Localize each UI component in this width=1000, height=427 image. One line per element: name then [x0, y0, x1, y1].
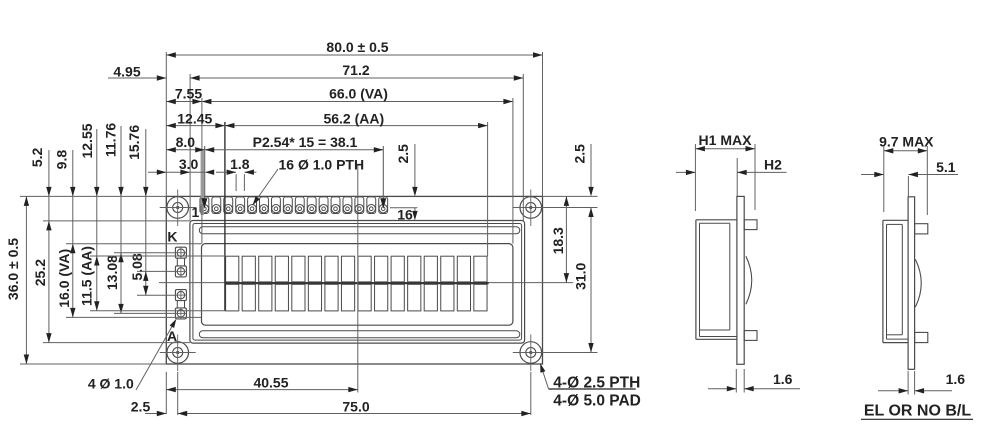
extension hole crosshair right bottom	[547, 352, 598, 354]
dimension 2.5 left vertical	[414, 144, 416, 191]
display window (VA)	[202, 244, 513, 326]
svg-text:A: A	[167, 328, 177, 344]
dimension 40.55	[166, 389, 357, 391]
svg-text:1.6: 1.6	[946, 371, 966, 387]
side view 1 bezel profile	[695, 220, 697, 339]
bezel bottom groove	[199, 331, 520, 338]
svg-text:P2.54* 15 = 38.1: P2.54* 15 = 38.1	[253, 134, 358, 150]
dimension 7.55	[166, 101, 202, 103]
dimension 18.3	[565, 196, 567, 282]
extension line AA left	[224, 122, 226, 311]
PCB outline (front view)	[166, 196, 542, 364]
extension line bezel right	[522, 74, 524, 221]
dimension 4.95	[108, 77, 166, 79]
svg-text:12.55: 12.55	[79, 123, 95, 158]
extension centerline right	[543, 282, 573, 284]
dimension P2.54* 15 = 38.1	[205, 149, 384, 151]
extension lines bottom	[165, 372, 167, 414]
svg-text:40.55: 40.55	[253, 375, 288, 391]
svg-text:18.3: 18.3	[550, 227, 566, 254]
dimension 12.55 and 11.5 (AA)	[96, 129, 98, 311]
svg-text:4 Ø 1.0: 4 Ø 1.0	[88, 376, 134, 392]
svg-text:2.5: 2.5	[131, 398, 151, 414]
extension line PCB right	[542, 52, 544, 196]
svg-text:H1 MAX: H1 MAX	[699, 132, 753, 148]
dimension 80.0 +-0.5	[166, 54, 542, 56]
svg-text:2.5: 2.5	[395, 144, 411, 164]
svg-text:5.1: 5.1	[936, 159, 956, 175]
svg-text:75.0: 75.0	[342, 398, 369, 414]
display centerline dark band	[225, 282, 489, 284]
dimension 2.5 right vertical	[590, 144, 592, 191]
extension line AA right	[487, 122, 489, 256]
svg-text:8.0: 8.0	[176, 134, 196, 150]
side view 1 bezel tab top	[744, 220, 757, 230]
dimension 5.1	[907, 176, 909, 197]
svg-text:36.0 ± 0.5: 36.0 ± 0.5	[5, 238, 21, 300]
svg-text:13.08: 13.08	[104, 255, 120, 290]
module vertical centerline	[357, 164, 359, 393]
dimension 8.0	[166, 149, 204, 151]
dimension H1 MAX	[694, 144, 696, 211]
svg-text:16.0 (VA): 16.0 (VA)	[56, 249, 72, 308]
bezel inner frame line	[193, 224, 522, 341]
dimension 1.6 side view 1	[735, 369, 737, 393]
dimension 12.45	[166, 125, 225, 127]
svg-text:1: 1	[192, 204, 200, 220]
svg-text:4-Ø 5.0 PAD: 4-Ø 5.0 PAD	[553, 393, 641, 410]
backlight pads K and A	[177, 257, 184, 268]
extension PCB top right	[543, 195, 598, 197]
dimension 36.0 +-0.5	[25, 196, 27, 364]
svg-text:EL OR NO B/L: EL OR NO B/L	[864, 403, 971, 420]
extension line pin1 center	[204, 146, 206, 200]
svg-text:H2: H2	[764, 156, 782, 172]
dimension 66.0 (VA)	[202, 101, 513, 103]
side view 1 bezel tab bottom	[744, 331, 757, 341]
svg-text:16 Ø 1.0 PTH: 16 Ø 1.0 PTH	[279, 157, 365, 173]
svg-text:66.0 (VA): 66.0 (VA)	[329, 86, 388, 102]
extension hole crosshair right top	[547, 207, 598, 209]
bezel outer frame	[190, 221, 525, 344]
mounting holes 4x	[167, 197, 189, 219]
side view 1 backlight bump	[746, 256, 752, 304]
side view 2 lens bump	[915, 259, 921, 307]
dimension 5.2 and 25.2	[48, 150, 50, 343]
dimension 31.0	[590, 208, 592, 353]
side view 2 bezel profile	[882, 220, 884, 342]
side view 1 PCB	[737, 196, 744, 364]
svg-text:1.8: 1.8	[230, 156, 250, 172]
svg-text:3.0: 3.0	[179, 156, 199, 172]
svg-text:K: K	[167, 228, 177, 244]
display horizontal centerline	[159, 282, 543, 284]
extension line VA right	[512, 98, 514, 244]
svg-text:31.0: 31.0	[573, 262, 589, 289]
svg-text:56.2 (AA): 56.2 (AA)	[323, 111, 384, 127]
svg-text:80.0 ± 0.5: 80.0 ± 0.5	[326, 39, 388, 55]
svg-text:9.7 MAX: 9.7 MAX	[879, 133, 934, 149]
dimension 11.76 and 13.08	[120, 126, 122, 313]
dimension H2	[736, 158, 738, 196]
svg-text:7.55: 7.55	[175, 86, 202, 102]
svg-text:5.2: 5.2	[29, 147, 45, 167]
dimension 1.6 side view 2	[907, 371, 909, 395]
dimension 9.8 and 16.0 (VA)	[72, 150, 74, 317]
extension line PCB left	[165, 52, 167, 196]
svg-text:4.95: 4.95	[113, 64, 140, 80]
svg-text:9.8: 9.8	[54, 150, 70, 170]
svg-text:25.2: 25.2	[32, 259, 48, 286]
svg-text:71.2: 71.2	[342, 62, 369, 78]
extension line pin16 center	[382, 146, 384, 200]
dimension 2.5 bottom	[145, 413, 166, 415]
dimension 15.76 and 5.08	[145, 129, 147, 295]
left extension lines	[20, 195, 166, 197]
dimension 3.0	[148, 171, 205, 173]
side view 2 bezel tab top	[915, 224, 928, 234]
dimension 56.2 (AA)	[225, 125, 488, 127]
svg-text:1.6: 1.6	[773, 371, 793, 387]
side view 2 bezel tab bottom	[915, 332, 928, 342]
character cells 16x2	[226, 256, 239, 282]
extension line bezel left	[189, 74, 191, 221]
dimension 9.7 MAX	[883, 146, 885, 212]
svg-text:11.76: 11.76	[102, 123, 118, 157]
svg-text:16: 16	[397, 207, 413, 223]
dimension 75.0	[178, 413, 531, 415]
svg-text:12.45: 12.45	[177, 111, 212, 127]
dimension 1.8	[216, 171, 236, 173]
side view 2 PCB	[908, 197, 915, 369]
svg-text:11.5 (AA): 11.5 (AA)	[79, 246, 95, 306]
svg-text:5.08: 5.08	[129, 253, 145, 280]
pin pads 1-16	[200, 197, 209, 214]
bezel top groove	[199, 227, 520, 234]
svg-text:2.5: 2.5	[572, 144, 588, 164]
extension line VA left gray bar	[201, 151, 204, 216]
svg-text:15.76: 15.76	[126, 125, 142, 160]
dimension 71.2	[190, 77, 523, 79]
